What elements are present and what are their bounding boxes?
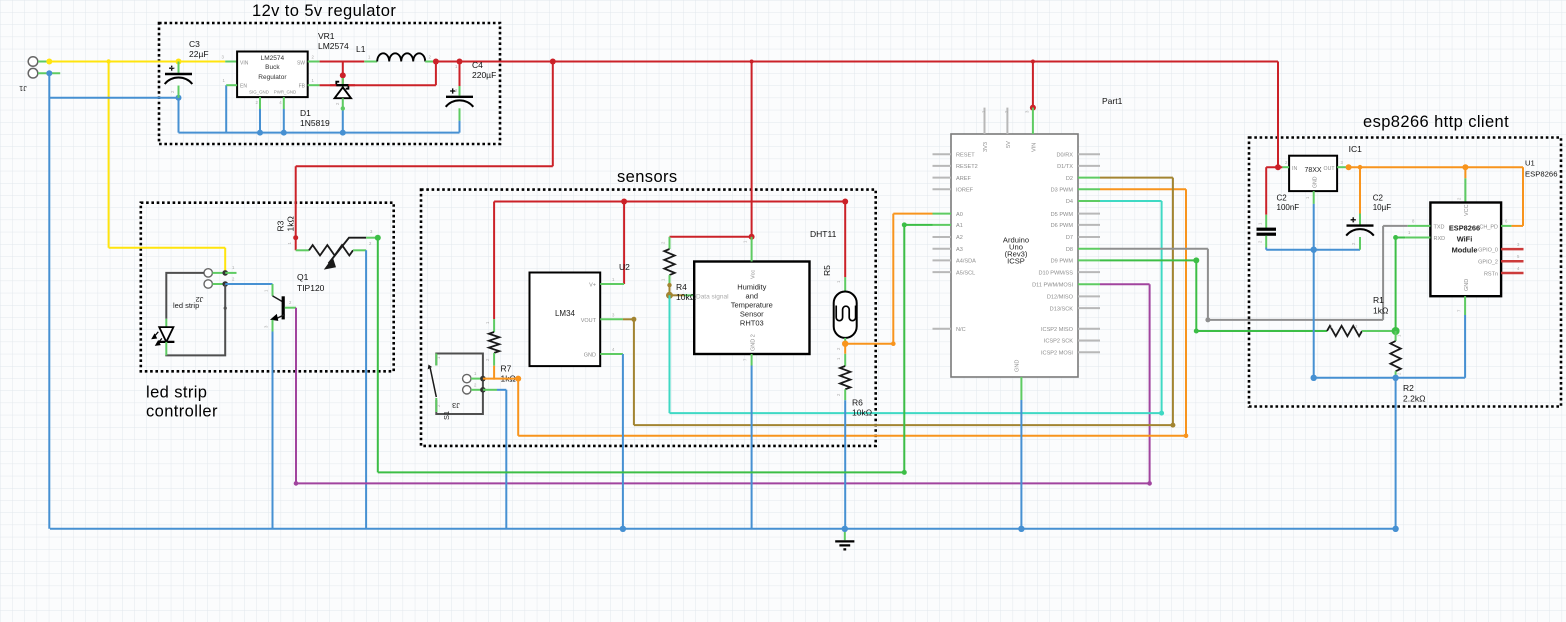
junction red RHT03 Vcc bbox=[749, 234, 755, 240]
wire red to Arduino VIN bbox=[1032, 62, 1034, 108]
svg-text:D8: D8 bbox=[1066, 247, 1073, 253]
svg-text:D0/RX: D0/RX bbox=[1057, 152, 1074, 158]
junction yellow at J1 bbox=[46, 59, 52, 65]
wire red to sensors Vcc bbox=[751, 62, 753, 237]
pin GND stub bbox=[600, 353, 623, 355]
svg-text:A1: A1 bbox=[956, 223, 963, 229]
svg-text:EN: EN bbox=[240, 84, 247, 90]
ground symbol bbox=[844, 529, 846, 540]
svg-text:VOUT: VOUT bbox=[581, 318, 597, 324]
wire red FB line bbox=[320, 84, 436, 86]
svg-text:GND: GND bbox=[584, 353, 596, 359]
svg-text:AREF: AREF bbox=[956, 176, 972, 182]
wire yellow drop to J2 pin1 bbox=[224, 248, 226, 273]
svg-text:Part1: Part1 bbox=[1102, 96, 1123, 106]
switch S1 and connector J3 frame bbox=[436, 354, 483, 415]
wire blue main ground bus bbox=[50, 528, 1396, 530]
svg-text:VR1: VR1 bbox=[318, 31, 335, 41]
wire blue SIG_GND drop bbox=[259, 109, 261, 133]
led strip internal frame wire bbox=[166, 273, 225, 356]
pin A0 bbox=[933, 213, 952, 215]
wire yellow down to led strip bbox=[108, 62, 110, 248]
wire blue R2 to ground bus bbox=[1395, 378, 1397, 529]
svg-text:PWR_GND: PWR_GND bbox=[274, 90, 296, 95]
svg-text:R3: R3 bbox=[276, 220, 286, 231]
wire blue D1 drop bbox=[342, 109, 344, 132]
svg-text:GND 2: GND 2 bbox=[751, 334, 757, 351]
wire green R3 wiper to A1 net bbox=[375, 235, 381, 241]
pin N/C bbox=[933, 328, 952, 330]
svg-text:LM2574: LM2574 bbox=[261, 55, 285, 62]
sensors section dashed border bbox=[421, 190, 876, 446]
wire blue J2 pin2 to Q1 collector bbox=[225, 283, 272, 285]
pin RSTn stub bbox=[1501, 272, 1523, 275]
svg-text:GND: GND bbox=[1464, 279, 1470, 291]
svg-text:WiFi: WiFi bbox=[1457, 235, 1473, 244]
led strip controller dashed border bbox=[141, 203, 394, 372]
pin D7 bbox=[1078, 236, 1100, 238]
svg-text:3V3: 3V3 bbox=[983, 142, 989, 152]
svg-text:V+: V+ bbox=[589, 283, 596, 289]
svg-text:78XX: 78XX bbox=[1304, 167, 1321, 174]
wire olive LM34 VOUT to Arduino D2 bbox=[623, 318, 634, 320]
capacitor C2 100nF bbox=[1265, 215, 1267, 228]
svg-text:J3: J3 bbox=[452, 401, 460, 410]
resistor R7 1k bbox=[493, 319, 495, 332]
pin D10 PWM/SS bbox=[1078, 271, 1100, 273]
junction red R3 bbox=[293, 235, 298, 240]
wire orange J3 pin1 to Arduino D3 bbox=[483, 378, 518, 380]
svg-text:A5/SCL: A5/SCL bbox=[956, 270, 975, 276]
svg-text:D2: D2 bbox=[1066, 176, 1073, 182]
pin D9 PWM bbox=[1078, 259, 1100, 261]
transistor Q1 TIP120 bbox=[272, 284, 274, 296]
svg-text:C2: C2 bbox=[1373, 194, 1384, 203]
pin OUT stub bbox=[1337, 166, 1346, 168]
svg-text:A0: A0 bbox=[956, 212, 963, 218]
wire gray D8 to ESP TXD bbox=[1100, 248, 1208, 250]
svg-text:RHT03: RHT03 bbox=[740, 319, 764, 328]
pin 3V3 bbox=[984, 108, 986, 134]
svg-text:10kΩ: 10kΩ bbox=[676, 292, 696, 302]
svg-text:TXD: TXD bbox=[1434, 224, 1445, 230]
capacitor C4 220uF bbox=[459, 62, 461, 87]
pin D4 bbox=[1078, 200, 1100, 202]
svg-text:1kΩ: 1kΩ bbox=[286, 216, 296, 231]
photoresistor R5 bbox=[844, 277, 846, 291]
svg-text:VIN: VIN bbox=[240, 61, 249, 67]
svg-text:R6: R6 bbox=[852, 398, 863, 408]
pin TXD stub bbox=[1408, 225, 1431, 227]
svg-text:Vcc: Vcc bbox=[751, 270, 757, 279]
wire blue cap grounds bbox=[1265, 248, 1267, 250]
svg-text:Temperature: Temperature bbox=[731, 301, 773, 310]
pin D3 PWM bbox=[1078, 188, 1100, 190]
pin D1/TX bbox=[1078, 165, 1100, 167]
pin Vcc stub bbox=[751, 237, 753, 262]
svg-text:VCC: VCC bbox=[1464, 204, 1470, 216]
svg-text:Module: Module bbox=[1452, 246, 1478, 255]
wire red to LM34 V+ bbox=[623, 202, 625, 285]
junction red D1 bbox=[340, 72, 346, 78]
svg-text:DHT11: DHT11 bbox=[810, 229, 837, 239]
wire red sensors rail bbox=[494, 201, 845, 203]
pin SIG_GND stub bbox=[259, 97, 261, 109]
svg-text:sensors: sensors bbox=[617, 168, 678, 186]
pin RESET2 bbox=[933, 165, 952, 167]
switch S1 blade bbox=[430, 368, 436, 397]
regulator IC1 78XX body bbox=[1289, 156, 1337, 191]
pin D13/SCK bbox=[1078, 307, 1100, 309]
wire blue to C3 bottom bbox=[49, 97, 178, 99]
pin D11 PWM/MOSI bbox=[1078, 283, 1100, 285]
wire orange down to C2 10uF bbox=[1359, 167, 1361, 213]
pin A5/SCL bbox=[933, 271, 952, 273]
pin GND bottom bbox=[1020, 377, 1022, 400]
svg-text:OUT: OUT bbox=[1324, 166, 1336, 172]
svg-text:N/C: N/C bbox=[956, 327, 966, 333]
pin FB stub bbox=[308, 84, 320, 86]
svg-text:R1: R1 bbox=[1373, 295, 1384, 305]
pin 5V bbox=[1006, 108, 1008, 134]
svg-text:controller: controller bbox=[146, 403, 218, 421]
svg-text:12v to 5v regulator: 12v to 5v regulator bbox=[252, 2, 396, 20]
svg-text:IOREF: IOREF bbox=[956, 188, 974, 194]
wire blue Arduino GND to ground bus bbox=[1020, 400, 1022, 529]
pin V+ stub bbox=[600, 283, 624, 285]
pin CH_PD stub bbox=[1501, 225, 1511, 227]
svg-text:ESP8266: ESP8266 bbox=[1449, 224, 1480, 233]
junction red sensors branch bbox=[750, 60, 754, 64]
svg-text:100nF: 100nF bbox=[1277, 203, 1300, 212]
junction blue LM34 gnd bbox=[620, 526, 626, 532]
wire blue C4 drop bbox=[459, 121, 461, 133]
svg-text:R7: R7 bbox=[501, 364, 512, 374]
svg-text:1kΩ: 1kΩ bbox=[1373, 306, 1388, 316]
svg-text:C4: C4 bbox=[472, 60, 483, 70]
svg-text:RXD: RXD bbox=[1434, 236, 1446, 242]
wire blue J1 pin2 down bbox=[46, 70, 52, 76]
pin ICSP2 MISO bbox=[1078, 328, 1100, 330]
svg-text:IN: IN bbox=[1292, 166, 1297, 172]
svg-text:L1: L1 bbox=[356, 44, 366, 54]
inductor L1 bbox=[364, 61, 377, 63]
svg-text:led strip: led strip bbox=[173, 301, 199, 310]
resistor R2 2.2k bbox=[1395, 331, 1397, 341]
connector J2 pin 2 bbox=[204, 280, 212, 288]
svg-text:A3: A3 bbox=[956, 247, 963, 253]
svg-text:led strip: led strip bbox=[146, 384, 207, 402]
svg-text:10kΩ: 10kΩ bbox=[852, 408, 872, 418]
LED D inside led strip bbox=[165, 319, 167, 327]
wire red D1 drop bbox=[342, 62, 344, 86]
svg-text:D11 PWM/MOSI: D11 PWM/MOSI bbox=[1032, 283, 1073, 289]
svg-text:ESP8266: ESP8266 bbox=[1525, 170, 1557, 179]
svg-text:GND: GND bbox=[1014, 360, 1020, 372]
svg-text:R5: R5 bbox=[822, 265, 832, 276]
wire purple Q1 base to D11 bbox=[295, 308, 297, 484]
svg-text:D6 PWM: D6 PWM bbox=[1051, 223, 1074, 229]
wire green RXD to R1/R2 node bbox=[1393, 235, 1398, 240]
op-amp U2 LM34 body bbox=[530, 273, 601, 367]
svg-text:GPIO_2: GPIO_2 bbox=[1478, 260, 1498, 266]
IC Part1 Arduino Uno body bbox=[951, 134, 1078, 377]
wire blue regulator ground rail bbox=[179, 132, 460, 134]
junction red at VIN stub bbox=[1030, 105, 1036, 111]
regulator section dashed border bbox=[159, 23, 500, 144]
wire yellow to J2 bbox=[109, 247, 226, 249]
pin GPIO_0 stub bbox=[1501, 248, 1523, 251]
svg-text:CH_PD: CH_PD bbox=[1479, 224, 1498, 230]
capacitor C2 10uF bbox=[1359, 214, 1361, 225]
connector J3 pin 2 bbox=[463, 386, 471, 394]
svg-text:esp8266 http client: esp8266 http client bbox=[1363, 113, 1509, 131]
pin IOREF bbox=[933, 188, 952, 190]
pin GPIO_2 stub bbox=[1501, 260, 1523, 263]
wire blue R6 to ground bus bbox=[844, 400, 846, 529]
pin A3 bbox=[933, 248, 952, 250]
pin SW stub bbox=[308, 61, 320, 63]
wire red SW to L1 bbox=[320, 61, 365, 63]
svg-text:Data signal: Data signal bbox=[696, 294, 729, 301]
svg-text:D3 PWM: D3 PWM bbox=[1051, 188, 1074, 194]
wire cyan data to Arduino D4 bbox=[669, 295, 671, 413]
IC U1 ESP8266 WiFi module body bbox=[1430, 203, 1501, 297]
pin IN stub bbox=[1282, 166, 1289, 168]
svg-text:22µF: 22µF bbox=[189, 49, 209, 59]
esp8266 client dashed border bbox=[1249, 138, 1561, 407]
svg-text:C3: C3 bbox=[189, 39, 200, 49]
wire blue RHT03 GND to ground bus bbox=[751, 366, 753, 529]
pin D12/MISO bbox=[1078, 295, 1100, 297]
wire red to R5 bbox=[844, 202, 846, 278]
svg-text:VIN: VIN bbox=[1031, 143, 1037, 152]
svg-text:D7: D7 bbox=[1066, 235, 1073, 241]
wire orange 78XX OUT to ESP VCC bbox=[1346, 164, 1352, 170]
pin AREF bbox=[933, 177, 952, 179]
wire blue LM34 GND to ground bus bbox=[622, 354, 624, 529]
svg-text:D5 PWM: D5 PWM bbox=[1051, 212, 1074, 218]
junction yellow at C3 bbox=[176, 59, 182, 65]
svg-text:10µF: 10µF bbox=[1373, 203, 1392, 212]
svg-text:R4: R4 bbox=[676, 282, 687, 292]
svg-text:ICSP2 MOSI: ICSP2 MOSI bbox=[1041, 350, 1073, 356]
svg-text:ICSP2 SCK: ICSP2 SCK bbox=[1044, 339, 1073, 345]
connector J3 pin 1 bbox=[463, 374, 471, 382]
svg-text:C2: C2 bbox=[1277, 194, 1288, 203]
svg-text:ICSP2 MISO: ICSP2 MISO bbox=[1041, 327, 1074, 333]
svg-text:SIG_GND: SIG_GND bbox=[249, 90, 269, 95]
junction red R5 branch bbox=[842, 199, 848, 205]
wire blue Q1 emitter to ground bus bbox=[272, 332, 274, 529]
svg-text:ICSP: ICSP bbox=[1007, 257, 1025, 266]
svg-text:FB: FB bbox=[299, 84, 306, 90]
junction red VIN branch bbox=[1031, 60, 1035, 64]
resistor R4 10k bbox=[669, 237, 671, 249]
svg-text:U1: U1 bbox=[1525, 159, 1535, 168]
svg-text:Humidity: Humidity bbox=[737, 283, 766, 292]
svg-text:5V: 5V bbox=[1006, 141, 1012, 148]
resistor R6 10k bbox=[844, 344, 846, 354]
svg-text:SW: SW bbox=[297, 61, 305, 67]
junction blue R2 bottom bbox=[1392, 375, 1398, 381]
wire orange R7 to J3/D3 net bbox=[493, 366, 495, 380]
svg-text:Buck: Buck bbox=[265, 64, 280, 71]
junction green R1 R2 RXD bbox=[1392, 327, 1400, 335]
connector J2 pin 1 bbox=[204, 269, 212, 277]
svg-text:Sensor: Sensor bbox=[740, 310, 764, 319]
pin RESET bbox=[933, 153, 952, 155]
pin VCC stub bbox=[1464, 178, 1466, 202]
sensor RHT03 body bbox=[694, 262, 809, 355]
pin A2 bbox=[933, 236, 952, 238]
diode D1 1N5819 bbox=[342, 78, 344, 88]
svg-text:2.2kΩ: 2.2kΩ bbox=[1403, 394, 1425, 404]
pin D0/RX bbox=[1078, 153, 1100, 155]
wire blue 78XX GND down bbox=[1313, 204, 1315, 378]
pin D6 PWM bbox=[1078, 224, 1100, 226]
junction yellow branch bbox=[106, 59, 110, 63]
wire red main 5V rail bbox=[433, 59, 439, 65]
svg-text:220µF: 220µF bbox=[472, 70, 496, 80]
pin GND stub 78XX bbox=[1313, 191, 1315, 204]
wire green A1 to R3 wiper bbox=[904, 224, 932, 226]
svg-text:Regulator: Regulator bbox=[258, 74, 287, 81]
svg-text:LM2574: LM2574 bbox=[318, 41, 349, 51]
svg-text:LM34: LM34 bbox=[555, 309, 576, 318]
svg-text:D10 PWM/SS: D10 PWM/SS bbox=[1038, 270, 1073, 276]
svg-text:RSTn: RSTn bbox=[1484, 271, 1498, 277]
wire blue EN drop bbox=[225, 85, 227, 132]
junction blue at C3 bottom bbox=[176, 95, 182, 101]
junction blue Arduino gnd bbox=[1018, 526, 1024, 532]
junction red C4 bbox=[457, 59, 463, 65]
pin GND stub ESP bbox=[1464, 296, 1466, 315]
pin GND2 stub bbox=[751, 354, 753, 366]
svg-text:A4/SDA: A4/SDA bbox=[956, 259, 976, 265]
potentiometer R3 1k bbox=[296, 249, 309, 251]
wire blue R3 terminal2 to ground bus bbox=[365, 250, 367, 529]
svg-text:GND: GND bbox=[1313, 176, 1319, 188]
capacitor C3 22uF bbox=[178, 62, 180, 73]
pin VIN bbox=[1032, 108, 1034, 134]
wire blue ESP GND bbox=[1464, 315, 1466, 378]
op-amp U VR1 LM2574 body bbox=[237, 52, 308, 98]
junction blue R2 bus bbox=[1392, 526, 1398, 532]
svg-text:Q1: Q1 bbox=[297, 272, 309, 282]
svg-text:IC1: IC1 bbox=[1349, 144, 1363, 154]
svg-text:D1/TX: D1/TX bbox=[1057, 164, 1073, 170]
svg-text:D12/MISO: D12/MISO bbox=[1047, 295, 1074, 301]
wire red to R4 top bbox=[670, 236, 752, 238]
pin PWR_GND stub bbox=[283, 97, 285, 109]
wire blue C3 to ground rail bbox=[178, 98, 180, 133]
junction red U2 branch bbox=[621, 199, 627, 205]
resistor R1 1k bbox=[1327, 326, 1362, 336]
wire blue PWR_GND drop bbox=[283, 109, 285, 133]
wire orange R5/R6 to Arduino A0 bbox=[842, 341, 848, 347]
svg-text:D4: D4 bbox=[1066, 199, 1073, 205]
svg-text:D1: D1 bbox=[300, 108, 311, 118]
pin ICSP2 MOSI bbox=[1078, 351, 1100, 353]
connector J1 pin 1 bbox=[28, 57, 38, 67]
wire yellow +12V J1 to C3/VIN bbox=[49, 61, 225, 63]
pin D2 bbox=[1078, 177, 1100, 179]
svg-text:U2: U2 bbox=[619, 262, 630, 272]
svg-text:RESET2: RESET2 bbox=[956, 164, 978, 170]
svg-text:A2: A2 bbox=[956, 235, 963, 241]
svg-text:GPIO_0: GPIO_0 bbox=[1478, 248, 1498, 254]
wire red to led strip controller bbox=[552, 62, 554, 167]
wire red down to C2 100nF bbox=[1265, 167, 1267, 215]
connector J1 pin 2 bbox=[28, 68, 38, 78]
pin A1 bbox=[933, 224, 952, 226]
pin A4/SDA bbox=[933, 259, 952, 261]
svg-text:D13/SCK: D13/SCK bbox=[1050, 306, 1074, 312]
pin RXD stub bbox=[1405, 237, 1430, 239]
svg-text:and: and bbox=[746, 292, 759, 301]
svg-text:S1: S1 bbox=[442, 411, 451, 420]
junction red led-strip branch bbox=[550, 59, 556, 65]
wire green D9 to R1 bbox=[1100, 259, 1196, 261]
wire blue J3 pin2 to ground bus bbox=[497, 389, 506, 391]
pin ICSP2 SCK bbox=[1078, 340, 1100, 342]
svg-text:J1: J1 bbox=[19, 84, 27, 93]
svg-text:RESET: RESET bbox=[956, 152, 975, 158]
wire yellow VIN stub bbox=[225, 61, 237, 63]
svg-text:D9 PWM: D9 PWM bbox=[1051, 259, 1074, 265]
pin EN stub bbox=[226, 84, 237, 86]
pin D8 bbox=[1078, 248, 1100, 250]
svg-text:R2: R2 bbox=[1403, 383, 1414, 393]
svg-text:TIP120: TIP120 bbox=[297, 283, 325, 293]
junction red at 78XX IN bbox=[1275, 164, 1281, 170]
wire red to 78XX IN bbox=[1277, 62, 1279, 168]
svg-text:1N5819: 1N5819 bbox=[300, 118, 330, 128]
pin VOUT stub bbox=[600, 318, 623, 320]
pin D5 PWM bbox=[1078, 213, 1100, 215]
wire orange VCC drop bbox=[1464, 167, 1466, 178]
wire olive R4 to RHT03 data bbox=[667, 283, 671, 287]
